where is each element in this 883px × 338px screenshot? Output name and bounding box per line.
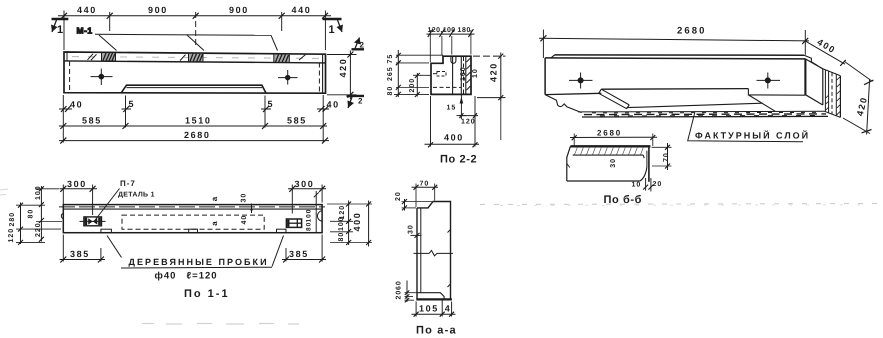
bottom dims 105 / 4 — [412, 299, 456, 317]
panel outline (elevation) — [64, 52, 326, 93]
svg-text:1510: 1510 — [185, 116, 211, 126]
svg-text:ф40: ф40 — [155, 270, 177, 281]
svg-text:70: 70 — [663, 152, 670, 162]
svg-text:180: 180 — [458, 27, 471, 34]
svg-text:440: 440 — [292, 5, 312, 15]
facing strip line — [63, 208, 322, 210]
svg-text:20: 20 — [396, 290, 403, 300]
bottom dim 400 — [425, 96, 480, 147]
svg-text:По 1-1: По 1-1 — [184, 288, 230, 300]
svg-text:1: 1 — [329, 24, 335, 36]
svg-text:120,100: 120,100 — [428, 27, 456, 34]
anchor mark right — [757, 73, 781, 89]
right dim column 120/100/80 and 400 — [327, 201, 372, 247]
top dim 2680 — [570, 134, 657, 147]
svg-text:440: 440 — [77, 5, 97, 15]
axon top dim 2680 — [539, 30, 809, 58]
right 420 dim — [327, 51, 357, 100]
inner wall line — [420, 208, 422, 292]
svg-text:ДЕРЕВЯННЫЕ ПРОБКИ: ДЕРЕВЯННЫЕ ПРОБКИ — [129, 257, 269, 267]
svg-text:а: а — [210, 221, 219, 226]
band right end step — [804, 55, 817, 65]
wooden plug left — [101, 229, 112, 233]
recess bottom edge — [627, 103, 763, 107]
svg-text:10: 10 — [472, 68, 479, 78]
svg-text:20: 20 — [395, 191, 402, 201]
band faint mid dashes — [72, 57, 320, 59]
200 dim — [413, 73, 431, 97]
end slabs — [823, 69, 841, 118]
svg-text:5: 5 — [268, 99, 275, 109]
facing layer hatch — [575, 147, 644, 155]
axon 400 dim slanted — [806, 41, 846, 66]
svg-text:585: 585 — [82, 116, 102, 126]
front right vertical edge — [804, 59, 806, 95]
svg-text:385: 385 — [70, 249, 90, 259]
svg-text:ДЕТАЛЬ 1: ДЕТАЛЬ 1 — [118, 192, 155, 199]
svg-text:80: 80 — [387, 86, 394, 96]
label фактурный слой with leader — [688, 113, 803, 142]
svg-text:300: 300 — [67, 179, 87, 189]
recess right diagonal — [748, 95, 775, 111]
svg-text:М-1: М-1 — [77, 26, 93, 36]
inner bottom step — [417, 293, 444, 299]
axon 420 dim slanted — [843, 62, 874, 135]
svg-text:2680: 2680 — [597, 129, 622, 138]
section flag 1 left — [51, 19, 68, 36]
dashed layer line — [463, 57, 465, 94]
svg-text:75: 75 — [387, 54, 394, 64]
svg-text:280: 280 — [9, 212, 16, 227]
section 2-2 profile outline — [431, 56, 471, 94]
right 385 dim — [282, 235, 326, 263]
svg-text:10: 10 — [632, 182, 642, 189]
svg-text:900: 900 — [148, 5, 168, 15]
svg-text:105: 105 — [419, 304, 439, 314]
hidden dashed line — [433, 86, 461, 88]
wooden plug right — [277, 229, 287, 233]
svg-text:420: 420 — [489, 62, 499, 82]
textured layer strip bottom — [582, 115, 828, 118]
hidden recess dashed rect — [122, 215, 264, 229]
bottom 10 / 20 dims — [643, 178, 653, 192]
faint scan fold line right — [480, 204, 878, 205]
section b-b profile top thick line — [570, 145, 650, 147]
svg-text:100: 100 — [338, 216, 345, 231]
extension line through bar — [315, 191, 317, 234]
right 420 dim — [473, 53, 506, 141]
embedded detail П-7 — [80, 217, 106, 226]
top dim row 120/100/180 — [427, 29, 475, 62]
svg-text:385: 385 — [289, 249, 309, 259]
svg-text:4: 4 — [445, 304, 452, 314]
dim row 585/1510/585 — [59, 95, 327, 143]
weld mark 2 — [180, 55, 186, 61]
svg-text:200: 200 — [409, 78, 416, 93]
svg-text:120: 120 — [461, 119, 476, 126]
svg-text:2680: 2680 — [184, 130, 210, 140]
section flag 1 right — [323, 19, 343, 36]
faint scan band — [142, 323, 299, 326]
lifting loop at top — [451, 56, 456, 63]
weld mark 1 — [88, 54, 97, 60]
anchor mark left — [569, 73, 593, 89]
inner layer line — [460, 56, 462, 94]
svg-text:100: 100 — [35, 185, 42, 200]
front bottom edge left — [545, 93, 601, 94]
bottom left dims 60/20 — [405, 281, 418, 303]
svg-text:ФАКТУРНЫЙ СЛОЙ: ФАКТУРНЫЙ СЛОЙ — [695, 130, 810, 141]
120 dim — [459, 96, 478, 147]
bottom dim row 40/5/5/40 — [59, 106, 329, 112]
far right vertical edge — [822, 69, 824, 105]
svg-text:30: 30 — [241, 193, 248, 203]
svg-text:По а-а: По а-а — [416, 325, 457, 337]
svg-text:300: 300 — [295, 179, 315, 189]
svg-text:а: а — [210, 196, 219, 201]
svg-text:40: 40 — [241, 215, 248, 225]
hidden dashed line left — [69, 61, 71, 93]
weld mark 3 — [299, 55, 306, 60]
textured layer hatch dashes — [584, 112, 826, 116]
recess top edge — [601, 88, 748, 91]
left 300 dim — [60, 185, 98, 216]
svg-text:160: 160 — [460, 66, 467, 81]
wooden plugs label with leaders — [107, 236, 284, 267]
bottom console trapezoid — [121, 85, 266, 93]
left 20 dim — [402, 199, 433, 211]
hatch at right edge — [467, 58, 471, 90]
right 70 dim — [652, 143, 672, 170]
section 1-1 bar outline — [63, 205, 322, 233]
left edge notch — [61, 213, 63, 218]
svg-text:2: 2 — [358, 97, 363, 106]
svg-text:80: 80 — [306, 222, 313, 231]
svg-text:900: 900 — [229, 5, 249, 15]
svg-text:ℓ=120: ℓ=120 — [187, 270, 218, 281]
panel main top edge — [545, 58, 805, 59]
right 300 dim — [288, 185, 326, 214]
svg-text:80: 80 — [28, 209, 35, 219]
svg-text:70: 70 — [420, 180, 430, 187]
right edge tick marks — [448, 230, 451, 288]
break line with zigzag — [414, 251, 454, 256]
axis dash-dot line — [59, 206, 325, 208]
svg-text:100: 100 — [306, 209, 313, 223]
15 dim with arrow — [457, 94, 467, 119]
left edge — [544, 58, 546, 95]
left end — [567, 146, 571, 181]
section a-a profile — [417, 202, 451, 300]
svg-text:585: 585 — [287, 116, 307, 126]
bottom line — [567, 180, 640, 182]
svg-text:30: 30 — [408, 224, 415, 234]
embedded plate M-1 no.3 — [274, 54, 290, 63]
left dim column 75/265/80 — [394, 50, 443, 97]
left 385 dim — [60, 235, 106, 263]
svg-text:1: 1 — [57, 24, 63, 36]
top dim row 440/900/900/440 — [58, 11, 331, 51]
embedded plate M-1 no.1 — [102, 53, 116, 61]
embedded plate M-1 no.2 — [189, 53, 204, 62]
svg-text:По 2-2: По 2-2 — [440, 154, 477, 166]
svg-text:400: 400 — [444, 133, 464, 143]
svg-text:2680: 2680 — [677, 26, 707, 37]
svg-text:220: 220 — [35, 222, 42, 237]
top band bottom line — [64, 61, 326, 63]
right edge notch — [317, 211, 322, 222]
svg-text:15: 15 — [447, 105, 457, 112]
svg-text:2: 2 — [360, 41, 365, 50]
svg-text:265: 265 — [387, 66, 394, 81]
wooden plug middle — [189, 229, 198, 233]
recess left chamfer facet — [599, 89, 630, 109]
svg-text:30: 30 — [610, 158, 617, 168]
textured layer strip top — [578, 110, 825, 113]
svg-text:40: 40 — [70, 100, 83, 110]
top band edge — [555, 54, 805, 56]
label M-1 with leaders — [77, 26, 278, 51]
right rib with curve — [642, 155, 645, 158]
left end bottom diagonal with notch — [545, 95, 582, 113]
svg-text:40: 40 — [327, 100, 340, 110]
section flag 2 top — [352, 38, 365, 50]
bottom thick edge — [416, 298, 452, 300]
top 70 dim — [412, 184, 439, 208]
bottom receding edge — [805, 95, 822, 105]
anchor mark left (circle-cross) — [91, 69, 113, 86]
left 30 dim — [411, 233, 422, 238]
svg-text:П-7: П-7 — [120, 179, 136, 188]
svg-text:5: 5 — [129, 99, 136, 109]
facing layer line — [465, 56, 467, 94]
embedded detail right — [286, 219, 301, 227]
left dim column 100/80/220 — [16, 186, 62, 245]
band left tick — [66, 52, 68, 61]
small dashed insert detail — [437, 72, 446, 77]
svg-text:420: 420 — [338, 58, 348, 78]
inner vertical wall line — [452, 56, 454, 94]
svg-text:400: 400 — [352, 212, 362, 232]
band left step — [551, 55, 555, 58]
receding top-right edge — [805, 59, 822, 69]
facing layer bottom line — [573, 154, 644, 156]
left edge arrow tick — [567, 164, 570, 168]
hidden dashed line right — [318, 63, 320, 94]
recess right step — [748, 89, 805, 96]
svg-text:60: 60 — [396, 280, 403, 290]
dim row 2680 — [59, 138, 329, 144]
svg-text:80: 80 — [338, 232, 345, 242]
anchor mark right (circle-cross) — [278, 70, 298, 85]
right edge double line — [322, 54, 324, 93]
svg-text:120: 120 — [8, 228, 15, 243]
svg-text:20: 20 — [653, 181, 663, 188]
section flag 2 bottom — [347, 96, 365, 108]
